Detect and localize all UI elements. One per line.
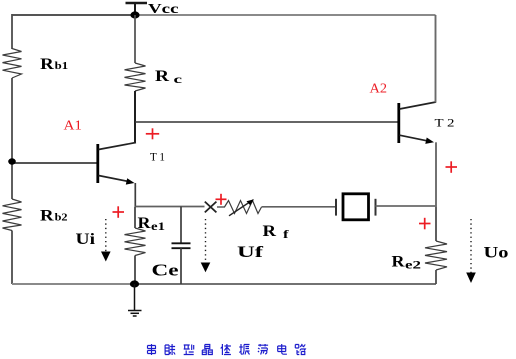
power Vcc symbol [126,3,148,15]
wire left rail middle [11,78,13,199]
char 1 (shuan) [148,344,156,355]
caption (blue Chinese title) [148,344,306,355]
plus sign at Re1 top [113,206,125,218]
svg-text:b1: b1 [55,60,69,72]
ground [128,284,142,316]
wire top rail (Vcc rail) [12,14,135,16]
svg-text:R: R [155,68,170,85]
svg-text:Ce: Ce [152,260,179,279]
wire collector node to T2 base [135,121,398,123]
char 3 (xing) [184,345,194,355]
arrow Uo (dotted) [466,219,476,283]
wire T2 emitter lead [435,142,437,207]
svg-text:e2: e2 [405,259,421,271]
wire feedback right segment (crystal to T2 emitter) [376,205,437,207]
wire Ce top lead [180,207,182,244]
junction dot divider node [8,158,16,164]
wire feedback left segment (emitter node to x mark) [135,206,204,208]
capacitor Ce [172,243,191,248]
wire Rc bottom lead to collector node [134,91,136,143]
transistor T1 [98,143,136,185]
char 4 (jing) [202,345,212,355]
svg-text:R: R [392,254,405,271]
junction dot Vcc node [130,11,139,18]
svg-text:Uf: Uf [237,244,264,261]
char 6 (zhen) [239,344,249,355]
arrow Ui (dotted) [101,219,111,262]
char 5 (ti) [221,344,231,355]
svg-text:T 1: T 1 [150,151,165,163]
svg-text:R: R [40,208,54,225]
wire T1 base [12,162,97,164]
svg-text:R: R [40,56,54,73]
resistor Re2 [425,241,447,270]
transistor T2 [399,102,436,144]
svg-text:R: R [263,223,277,240]
resistor Rc [125,63,146,91]
svg-text:b2: b2 [55,211,69,223]
char 9 (lu) [295,344,305,355]
wire feedback middle segment (Rf to crystal) [262,206,337,208]
wire T1 emitter lead [134,183,136,207]
svg-text:Vcc: Vcc [148,2,179,17]
plus sign at T2 emitter [446,161,458,173]
svg-text:A2: A2 [370,81,388,96]
wire bottom rail (ground rail) [12,283,134,285]
resistor Rb2 [3,199,22,231]
wire left rail lower [11,231,13,285]
crystal Y1 [336,194,376,220]
svg-text:A1: A1 [64,118,83,133]
plus sign at T1 collector [146,128,159,139]
resistor Rf (with arrow) [217,199,262,216]
svg-text:Ui: Ui [76,231,96,248]
char 2 (lian) [165,344,175,355]
resistor Re1 [125,228,146,256]
svg-text:e1: e1 [151,221,165,233]
svg-text:T 2: T 2 [435,117,455,129]
char 8 (dian) [278,344,287,354]
wire Re1 bottom lead [134,256,136,285]
svg-text:c: c [174,72,184,86]
wire T2 collector lead [435,15,437,103]
svg-text:R: R [138,215,151,232]
arrow Uf (dotted) [201,219,211,272]
wire Re2 bottom lead [435,270,437,284]
wire Rc top lead [134,15,136,63]
plus sign after x mark [216,194,227,205]
plus sign above Re2 [419,218,431,230]
char 7 (dang) [258,344,268,355]
svg-text:f: f [283,227,290,241]
resistor Rb1 [3,49,22,79]
junction dot ground node [130,280,139,287]
svg-text:Uo: Uo [484,245,509,262]
x mark on feedback wire [205,202,217,213]
wire Re1 top lead [134,207,136,228]
wire Re2 top lead [435,207,437,241]
wire left rail upper [11,14,13,49]
wire Ce bottom lead [180,248,182,284]
